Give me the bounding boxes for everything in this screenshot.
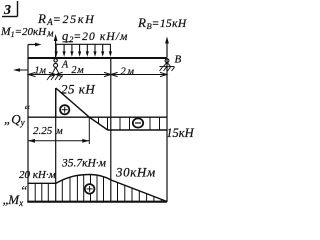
svg-text:35.7кН·м: 35.7кН·м — [61, 158, 107, 170]
left out arrow — [13, 68, 28, 72]
svg-text:3: 3 — [3, 3, 11, 18]
dimension 2.25 m — [28, 117, 89, 144]
svg-text:2.25м: 2.25м — [33, 125, 63, 137]
force RA arrow — [54, 34, 58, 58]
problem number 3 box — [2, 1, 18, 18]
svg-text:15кН: 15кН — [166, 126, 194, 140]
svg-text:2м: 2м — [72, 65, 85, 76]
svg-text:25 кН: 25 кН — [61, 82, 95, 97]
beam — [28, 57, 167, 59]
Qy bottom line — [108, 129, 168, 131]
svg-text:30кНм: 30кНм — [115, 165, 156, 180]
Mx baseline — [27, 201, 167, 203]
svg-text:RB=15кН: RB=15кН — [137, 15, 187, 31]
label q2=20kN/m — [63, 41, 74, 43]
Qy hatching — [99, 116, 160, 131]
Qy zero line — [28, 116, 167, 118]
svg-text:2м: 2м — [121, 67, 136, 78]
svg-text:M1=20кНм: M1=20кНм — [0, 26, 54, 40]
svg-text:B: B — [175, 54, 182, 66]
reference line left end — [27, 45, 29, 203]
reference line at load end — [110, 58, 112, 202]
svg-text:A: A — [61, 60, 69, 71]
support B — [160, 59, 175, 71]
dimension line under beam — [28, 72, 167, 76]
Qy jump at A — [55, 88, 57, 117]
support A — [47, 59, 63, 80]
svg-text:RA=25кН: RA=25кН — [37, 11, 96, 27]
distributed load q2 — [55, 44, 112, 57]
Mx hatching — [35, 172, 161, 203]
Qy sloping line — [56, 88, 108, 130]
reference line at A — [55, 88, 57, 202]
svg-text:1м: 1м — [35, 66, 47, 77]
Mx boundary curve — [28, 175, 167, 202]
Mx plus sign — [85, 184, 95, 194]
Qy plus sign — [60, 105, 69, 114]
moment M1 symbol — [28, 43, 42, 47]
svg-text:20 кН·м: 20 кН·м — [19, 169, 56, 181]
reference line at B — [166, 58, 168, 202]
force RB arrow — [165, 37, 169, 58]
Qy minus sign — [133, 118, 143, 127]
